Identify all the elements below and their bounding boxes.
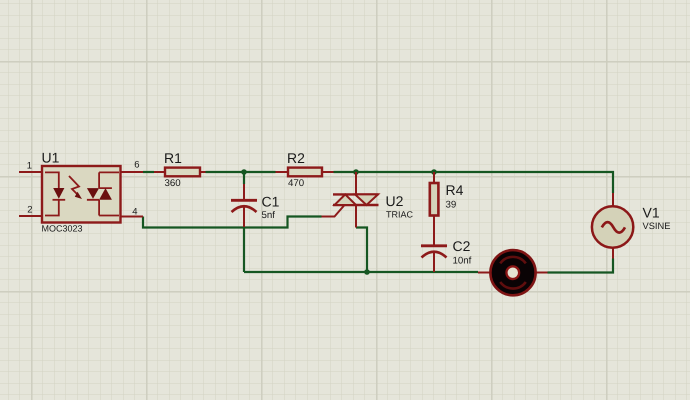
resistor R1 — [154, 168, 206, 177]
AC source V1 — [592, 193, 633, 259]
svg-text:6: 6 — [134, 160, 139, 171]
capacitor C2 — [421, 246, 447, 272]
wire node C to V1 top — [434, 172, 613, 193]
wire U1 pin4 to U2 gate — [143, 217, 322, 228]
U1 pin 2 wire — [19, 215, 42, 217]
optocoupler U1 — [42, 166, 121, 223]
node A junction — [241, 169, 247, 175]
wire bottom rail left — [244, 271, 367, 273]
svg-text:C2: C2 — [453, 238, 471, 254]
svg-text:U1: U1 — [42, 150, 60, 166]
wire U1 pin6 to R1 — [143, 171, 154, 173]
wire U2 MT1 to node D — [356, 228, 367, 273]
triac U2 — [322, 172, 379, 228]
resistor R4 — [430, 172, 439, 245]
wire R1 to node A — [206, 171, 245, 173]
node B junction — [353, 169, 359, 175]
svg-text:360: 360 — [165, 178, 182, 189]
svg-text:TRIAC: TRIAC — [386, 209, 414, 219]
svg-text:V1: V1 — [643, 205, 660, 221]
wire node A to C1 top — [243, 172, 245, 184]
svg-text:4: 4 — [132, 207, 137, 218]
svg-text:C1: C1 — [262, 194, 280, 210]
U1 pin 6 wire — [121, 171, 144, 173]
resistor R2 — [276, 168, 334, 177]
capacitor C1 — [231, 184, 257, 227]
node C junction — [431, 169, 437, 175]
svg-text:U2: U2 — [386, 193, 404, 209]
svg-text:10nf: 10nf — [453, 256, 472, 267]
U1 pin 4 wire — [121, 216, 144, 218]
wire motor to V1 bottom — [548, 259, 614, 273]
node D junction — [364, 269, 370, 275]
wire R2 to node B — [334, 171, 357, 173]
U1 pin 1 wire — [19, 171, 42, 173]
wire node D to motor — [367, 271, 478, 273]
svg-text:39: 39 — [446, 200, 457, 211]
svg-text:R1: R1 — [164, 150, 182, 166]
svg-text:2: 2 — [27, 205, 32, 216]
svg-text:R2: R2 — [287, 150, 305, 166]
svg-text:VSINE: VSINE — [643, 221, 671, 231]
wire node A to R2 — [244, 171, 276, 173]
wire node B to node C — [356, 171, 434, 173]
svg-text:R4: R4 — [446, 182, 464, 198]
svg-text:1: 1 — [27, 161, 32, 172]
svg-text:MOC3023: MOC3023 — [42, 224, 83, 234]
motor M1 — [478, 250, 548, 295]
svg-text:470: 470 — [288, 178, 305, 189]
svg-text:5nf: 5nf — [262, 210, 276, 221]
wire C1 bottom to bottom rail — [243, 228, 245, 272]
